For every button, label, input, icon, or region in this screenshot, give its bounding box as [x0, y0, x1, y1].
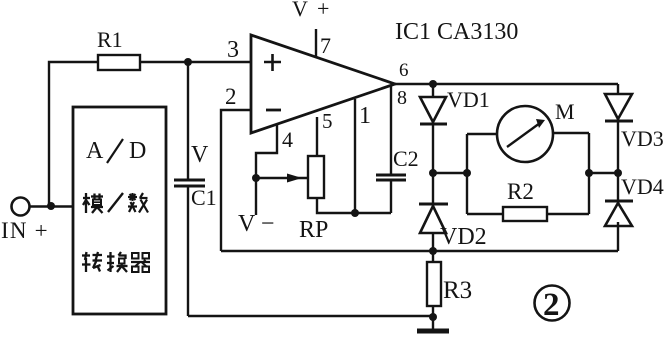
svg-text:V +: V + — [292, 0, 331, 21]
A/D converter block — [73, 107, 166, 314]
svg-text:7: 7 — [320, 33, 331, 58]
plus input mark — [264, 54, 281, 71]
node pin4/V- junction — [252, 174, 260, 182]
svg-text:VD3: VD3 — [621, 126, 664, 151]
figure number 2 — [535, 286, 570, 324]
wire C1 branch — [187, 62, 189, 316]
node RP/C2 bottom junction — [351, 209, 359, 217]
svg-text:5: 5 — [322, 109, 333, 133]
svg-text:2: 2 — [225, 84, 237, 109]
potentiometer RP — [308, 156, 324, 198]
svg-text:M: M — [555, 99, 575, 124]
node mid left — [429, 169, 437, 177]
wire RP bottom — [317, 198, 355, 213]
wire VD4 column — [617, 173, 619, 251]
wire mid rail right — [589, 172, 618, 174]
wire mid rail left — [433, 172, 467, 174]
svg-text:VD4: VD4 — [621, 174, 664, 199]
svg-text:V: V — [191, 142, 209, 168]
node junction at pin3 — [184, 58, 192, 66]
resistor R3 — [427, 251, 441, 317]
label 数 (drawn) — [128, 193, 148, 213]
resistor R2 — [503, 207, 547, 221]
wire VD2 column — [432, 173, 434, 251]
wire pin1 — [354, 99, 356, 213]
wire pin7 V+ — [315, 29, 317, 58]
svg-text:2: 2 — [543, 287, 560, 323]
minus input mark — [266, 109, 281, 112]
svg-text:R1: R1 — [97, 27, 123, 52]
diode VD2 — [419, 204, 448, 233]
node R3 bottom — [429, 313, 437, 321]
label 换 (drawn) — [107, 252, 128, 272]
wire VD3 column — [617, 84, 619, 173]
slash between 模 and 数 — [108, 193, 123, 212]
wire bottom rail — [221, 250, 618, 252]
diode VD3 — [605, 94, 633, 121]
svg-text:A: A — [86, 138, 104, 164]
svg-text:R3: R3 — [443, 277, 472, 304]
wire meter/R2 left bracket — [467, 134, 503, 214]
svg-text:3: 3 — [227, 37, 239, 63]
wire VD1 column — [432, 84, 434, 173]
wire C2 branch pin8 — [355, 85, 391, 213]
node IN junction — [47, 202, 55, 210]
svg-text:C2: C2 — [393, 146, 419, 171]
node meter bracket left — [463, 169, 471, 177]
terminal IN+ — [12, 198, 74, 216]
diode VD4 — [605, 201, 633, 226]
wire pin5 — [316, 117, 318, 156]
diode VD1 — [420, 97, 447, 124]
svg-text:IN +: IN + — [1, 218, 49, 243]
ground — [417, 317, 449, 331]
svg-text:VD1: VD1 — [447, 87, 490, 112]
svg-text:1: 1 — [359, 103, 371, 129]
node VD3/VD4 junction — [614, 169, 622, 177]
svg-text:RP: RP — [299, 217, 328, 243]
label 转 (drawn) — [82, 252, 102, 272]
node output/VD1 — [429, 80, 437, 88]
wire output pin6 rail — [395, 83, 618, 85]
node meter bracket right — [585, 169, 593, 177]
svg-text:R2: R2 — [507, 179, 534, 204]
svg-text:8: 8 — [397, 87, 407, 109]
svg-text:C1: C1 — [191, 185, 217, 210]
wire V- lead — [255, 178, 257, 215]
label A/D — [86, 138, 146, 164]
capacitor C2 — [376, 175, 406, 180]
resistor R1 — [98, 55, 140, 70]
svg-text:D: D — [129, 138, 146, 164]
label 模 (drawn) — [83, 193, 103, 213]
svg-text:6: 6 — [399, 60, 409, 81]
svg-text:VD2: VD2 — [440, 224, 487, 250]
label 器 (drawn) — [131, 253, 150, 272]
wiper arrow to RP — [256, 174, 308, 183]
svg-text:V −: V − — [238, 211, 274, 237]
op-amp U1 — [251, 35, 395, 133]
node R3 top — [429, 247, 437, 255]
svg-text:4: 4 — [282, 127, 293, 152]
wire pin2 — [221, 110, 251, 251]
wire pin4 — [256, 124, 277, 178]
wire top R1 to opamp pin3 — [49, 62, 251, 206]
capacitor C1 — [174, 180, 205, 186]
svg-text:IC1 CA3130: IC1 CA3130 — [395, 19, 518, 45]
wire meter right bracket — [547, 133, 589, 214]
meter M — [497, 106, 553, 162]
wire bottom-left to ground — [188, 315, 433, 317]
